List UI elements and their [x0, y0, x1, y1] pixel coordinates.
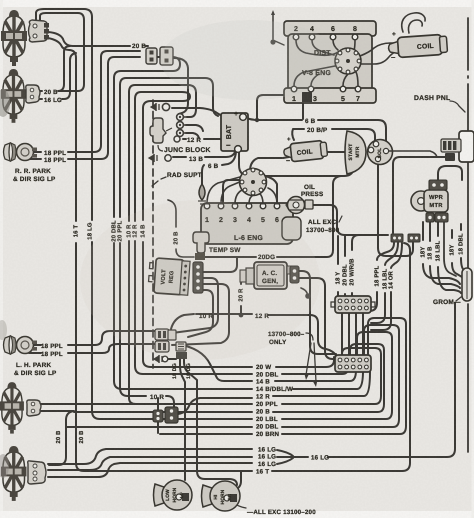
L6 plug wire 3 — [235, 190, 242, 204]
wire row 20BRN left — [160, 433, 252, 435]
wpr connector bottom right — [435, 213, 448, 222]
wire row 16LG3 lamp D wire — [48, 463, 252, 477]
lamp L.H. head lamp C — [0, 382, 24, 434]
L-6 engine block — [201, 203, 301, 244]
wire row 20DBL2 overloop — [282, 325, 399, 427]
voltage regulator — [148, 258, 190, 296]
wire 18Y right x452 to grommet — [452, 230, 462, 277]
wire row 12R to conn2 — [273, 372, 370, 396]
wire gen right pin2 down into conn2 — [299, 278, 336, 359]
wire volt reg pin4 down — [188, 290, 213, 337]
bulkhead connector 1 — [335, 296, 371, 313]
L6 cap terminal 2 — [251, 168, 255, 172]
L6 terminal 2 — [218, 203, 224, 209]
wire L6 cap right into block — [265, 176, 277, 203]
wire 18DBL right x461 — [461, 224, 466, 273]
wire 6B to solenoid right terminal — [318, 120, 386, 146]
wire 18DG left to horn low — [180, 358, 185, 480]
bulkhead connector 1 tabs — [331, 302, 375, 307]
firewall multi pin connector — [441, 139, 461, 152]
wire wpr 18Y down to grommet — [423, 222, 460, 284]
wire 18DG right to horn hi — [184, 358, 237, 485]
wire row 14B/DBL/W to conn2 — [293, 371, 363, 389]
wire RAD SUPT dash leader — [152, 177, 166, 186]
lamp L.H. outer lamp D — [1, 446, 26, 501]
ignition coil V8 — [388, 34, 448, 58]
wire horn hi right side up — [234, 472, 241, 490]
V8 cap terminal 6 — [346, 70, 350, 74]
V8 coil wire plus — [360, 43, 397, 56]
wpr connector bottom left — [426, 213, 434, 222]
solenoid SOL — [368, 140, 393, 165]
wire conn1 to conn2 vertical 3 — [355, 313, 357, 355]
wire 18PPL x108 vertical to RH park — [30, 64, 108, 159]
wire 16LG merged to grommet — [328, 303, 455, 457]
L6 cap terminal 4 — [262, 180, 266, 184]
V8 cap terminal 5 — [354, 67, 358, 71]
leader arrowhead 2 — [313, 381, 317, 387]
V8 bottom terminal 4 — [355, 86, 361, 92]
V8 cap terminal 7 — [338, 67, 342, 71]
wire x135 down to row374 — [135, 99, 252, 374]
connector block pair bottom A — [153, 410, 163, 422]
wire row 20B lamp C — [41, 411, 74, 465]
firewall connector box — [459, 131, 474, 162]
paper margin right — [472, 0, 474, 518]
V8 bottom terminal 3 — [340, 86, 346, 92]
V-8 distributor box — [284, 21, 376, 103]
wire ALL EXC 13100 leader — [233, 502, 246, 508]
L6 terminal 6 — [274, 203, 280, 209]
wire 20B top: lamp A to label and connector pair — [48, 32, 148, 46]
wire wpr 18LBL down to grommet — [438, 222, 461, 293]
V8 top terminal 2 — [309, 34, 315, 40]
L6 plug wire 1 — [207, 177, 240, 204]
wire L6 cap left into block — [223, 180, 240, 203]
volt reg connector strip — [193, 262, 203, 293]
wire conn1 to conn2 vertical 4 — [362, 313, 364, 355]
wire 20DBL x114 down to row389 — [114, 78, 252, 389]
wire gnd terminal bottom left — [168, 358, 176, 360]
scan smudge left edge — [0, 89, 10, 117]
V8 top terminal 3 — [330, 34, 336, 40]
fuse block B mid left — [155, 341, 169, 352]
wire wpr 4th down — [444, 222, 456, 276]
connector plug lamp C — [27, 400, 41, 416]
wire 18PPL x101 top elbow — [101, 51, 140, 57]
L6 plug wire 5 — [259, 193, 263, 204]
wire ring terminal 3 curl — [186, 133, 199, 138]
wire x120 elbow dive behind BAT — [120, 78, 218, 116]
oil pressure sender — [286, 197, 313, 214]
wire volt reg pin1 up to 20DG — [203, 258, 237, 272]
horn low note — [154, 480, 193, 510]
wire row 20DBL to conn2 — [282, 368, 348, 374]
wire riser 20DBL x345 T to conn1 — [344, 236, 346, 296]
V8 plug wire 8 — [352, 40, 355, 55]
connector plug lamp A — [29, 20, 50, 42]
lamp R.H. outer lamp — [1, 69, 26, 123]
wire row 20LBL overloop — [282, 332, 392, 419]
connector half B top — [160, 47, 173, 65]
wire 16LG lamp B bottom merging into bundle — [39, 53, 76, 99]
V8 bottom terminal 1 — [291, 86, 297, 92]
ground symbol at junction feed — [151, 103, 159, 111]
gen ground terminal — [305, 293, 311, 299]
wire 13B ground to BAT minus — [173, 152, 235, 157]
dash panel boundary line — [467, 18, 469, 452]
ground symbol bottom left — [154, 355, 162, 363]
wire ALL EXC 13700 leader — [339, 216, 342, 222]
L6 cap terminal 8 — [240, 180, 244, 184]
V8 plug wire 7 — [356, 72, 358, 86]
wire row 14B to conn2 — [275, 370, 356, 381]
A.C. generator — [240, 262, 292, 289]
coil top arc wire 1 — [402, 13, 425, 32]
L6 distributor cap — [240, 169, 267, 196]
V8 cap terminal 4 — [357, 59, 361, 63]
wire row 20B right part — [74, 344, 384, 412]
antenna pole ball — [270, 39, 275, 44]
wire row 20W — [276, 357, 334, 367]
V8 plug wire 2 — [296, 40, 338, 55]
wire 14OR x391 — [371, 243, 402, 330]
wire conn1 to conn2 vertical 2 — [348, 313, 350, 355]
wire BAT plus right 6B — [246, 118, 302, 120]
connector block pair bottom B — [165, 407, 178, 423]
wpr connector top — [429, 180, 447, 190]
terminal 13B — [165, 155, 171, 161]
wire row 20DBL2 left — [66, 426, 252, 428]
temp switch symbol — [193, 232, 209, 260]
fuse side block — [168, 330, 176, 340]
V8 cap terminal 2 — [346, 48, 350, 52]
coil top arc wire 2 — [408, 20, 422, 33]
starter motor — [345, 131, 366, 174]
paper margin left — [0, 0, 3, 518]
wire 18LG: lamp A top loop, down x90, into row419 — [36, 9, 252, 419]
wire coil2 to start mtr — [327, 151, 345, 153]
L6 terminal 1 — [204, 203, 210, 209]
paper margin bottom — [0, 511, 474, 518]
scan smudge left low — [0, 320, 7, 340]
wire lamp A mid loop to lamp B top 20B — [39, 13, 84, 91]
connector half A top — [146, 48, 157, 64]
scan shade top middle — [160, 20, 340, 100]
wire 16T: lamp A bottom, down x76, bottom 16T row — [48, 38, 252, 471]
junction block key symbol — [150, 118, 172, 143]
wire 18LBL x385 — [371, 243, 398, 323]
V8 plug wire 4 — [312, 40, 334, 55]
wiper motor — [411, 190, 448, 212]
L6 cap terminal 7 — [243, 188, 247, 192]
wire x129 elbow curl into ring terminal 1 — [129, 85, 196, 117]
wire 20B/P to solenoid — [292, 129, 375, 141]
wire riser 18Y x338 T to conn1 — [337, 236, 339, 296]
junction block leader — [158, 145, 163, 151]
wire 16T label break right — [272, 243, 410, 471]
wire L6 cap to coil2 — [250, 158, 282, 171]
scan grain overlay — [0, 0, 1, 1]
ring terminal junction feed — [162, 103, 169, 110]
scan shade mid — [80, 200, 320, 360]
connector pair mid 2 — [408, 234, 420, 242]
ring terminal 2 — [177, 122, 187, 129]
wire wpr top connector to dash — [438, 166, 462, 181]
wire fuse block to row381 — [177, 344, 252, 381]
wire solenoid bottom to conn pair2 — [378, 162, 413, 256]
V8 cap terminal 1 — [338, 51, 342, 55]
L6 terminal 4 — [246, 203, 252, 209]
firewall small connector — [445, 153, 455, 161]
gen right connector — [290, 266, 299, 283]
V8 top terminal 4 — [352, 34, 358, 40]
teardrop ground L6 — [198, 184, 206, 204]
park lamp L.H. — [4, 336, 38, 354]
horn hi note — [202, 481, 241, 511]
lamp R.H. head/dir lamp top — [1, 10, 27, 66]
wire row 16LG1 from lamp D — [48, 449, 252, 464]
scan smudge bottom left — [0, 454, 9, 478]
wire BAT feed up to V8 — [257, 95, 287, 120]
gen ground pigtail — [301, 288, 307, 293]
wire conn1 to conn2 vertical 1 — [341, 313, 343, 355]
L6 terminal 3 — [232, 203, 238, 209]
dark box 18DG — [176, 352, 187, 359]
wire conn pair bottom stub 1 — [157, 398, 159, 433]
wire 12R to starter feed — [183, 139, 353, 176]
V8 plug wire 3 — [311, 74, 319, 86]
junction dot 12R 10R — [239, 313, 244, 318]
L6 cap terminal 6 — [251, 191, 255, 195]
battery BAT — [221, 113, 248, 152]
V8 distributor cap — [335, 48, 361, 74]
wire 10R row left from fuse block — [171, 314, 194, 329]
ground symbol 13B — [149, 154, 157, 162]
wire DASH PNL leader — [450, 101, 465, 112]
wire GROM leader — [456, 297, 461, 301]
V8 top terminal 1 — [293, 34, 299, 40]
wire V8 fuse down to 6B wire — [302, 103, 304, 119]
wire 18PPL L.H upper from fuse block — [29, 331, 155, 345]
L6 plug wire 6 — [268, 188, 277, 204]
V8 plug wire 5 — [343, 74, 348, 86]
wire coil2 minus from cap area — [283, 157, 289, 158]
wire 18PPL x101 vertical to RH park — [30, 57, 101, 152]
L6 plug wire 2 — [221, 181, 242, 204]
V8 bottom terminal 2 — [308, 86, 314, 92]
park lamp R.H. — [4, 143, 38, 161]
L6 cap terminal 1 — [243, 171, 247, 175]
L6 cap terminal 5 — [259, 188, 263, 192]
V8 coil wire minus — [361, 51, 397, 64]
wire 20B temp lead — [168, 200, 194, 257]
leader arrowhead 1 — [305, 374, 309, 380]
V8 plug wire 1 — [294, 66, 335, 86]
terminal 12R — [174, 136, 180, 142]
V8 fuse block — [302, 92, 312, 102]
wire BAT minus to ground 6B teardrop — [202, 152, 236, 184]
wire 13700-800 leader curve — [306, 333, 316, 382]
paper margin top — [0, 0, 474, 7]
fuse block A mid left — [155, 329, 169, 340]
solenoid wire right — [389, 151, 437, 157]
wire oil press sender down to conn1 — [313, 205, 388, 235]
L6 cap terminal 3 — [259, 171, 263, 175]
wire volt reg pin2 to 10R blocks — [172, 278, 218, 333]
connector pair mid 1 — [391, 234, 403, 242]
wire ring terminal 2 curl — [186, 125, 203, 131]
wire 10R row to 12R junction — [196, 314, 336, 356]
wire riser 20W/R/B x352 T off oil row — [352, 235, 359, 296]
wire lamp A loop inner down — [62, 40, 84, 91]
antenna pole top — [271, 10, 275, 15]
L6 terminal 5 — [260, 203, 266, 209]
wire dash box to conn pair1 x393 — [393, 157, 446, 233]
wire wpr 18B down to grommet — [430, 222, 460, 288]
connector plug lamp D — [28, 461, 46, 484]
L6 plug wire 4 — [249, 196, 252, 204]
wire ground terminal feed behind BAT — [172, 108, 222, 116]
wire 20R: junction 12R up to gen — [241, 276, 254, 315]
ignition coil L6 — [283, 140, 328, 162]
ring terminal 3 — [177, 130, 187, 137]
connector plug lamp B — [26, 85, 40, 103]
V8 plug wire 6 — [333, 40, 338, 50]
wire 16LG merge bracket — [277, 450, 308, 464]
rad supt boundary dash line — [152, 100, 154, 368]
wire row 16LG2 lamp D wire — [48, 457, 252, 470]
grommet — [462, 268, 472, 301]
terminal bottom left — [162, 356, 168, 362]
wire row 20PPL lamp C — [41, 348, 381, 404]
wire 20DG temp to riser x333 up to starter — [204, 176, 341, 257]
wire x108 top elbow + u-turn at x180 — [108, 57, 180, 78]
V8 cap terminal 3 — [354, 51, 358, 55]
wire 18PPL x377 from conn pair1 — [369, 243, 394, 311]
wire row 20BRN overloop — [282, 318, 406, 434]
wire right block to 12R row — [178, 398, 252, 414]
wire volt reg pin3 down to blocks — [172, 284, 229, 345]
ring terminal 1 — [177, 114, 187, 121]
wire 20B vertical x189 curl into junction — [174, 58, 188, 114]
wire x129 down to row404 — [129, 92, 136, 404]
wire 18PPL L.H lower from fuse block — [29, 344, 155, 353]
junction dot BAT feed — [255, 118, 259, 122]
wire gen right pin1 down into loops — [299, 271, 336, 354]
bulkhead connector 2 — [335, 355, 371, 372]
wire x120 down to row396 10R into block — [120, 85, 174, 408]
small box E bottom left — [176, 342, 186, 351]
wire 12R x135 elbow u-turn to x143 — [135, 92, 252, 367]
V8 cap terminal 8 — [335, 59, 339, 63]
antenna pole by V8 — [273, 15, 284, 45]
